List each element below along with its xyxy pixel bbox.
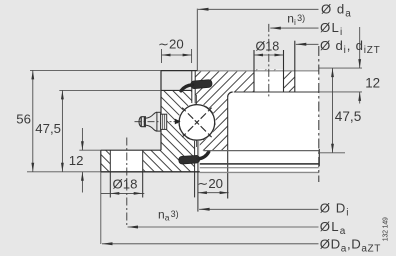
leader n_i / ØL_i [270,27,318,29]
center line bolt hole bottom [126,138,128,228]
seal seat line [204,150,320,152]
dimension Ø18 top [254,54,284,56]
seal groove bottom edge + ext 47,5 [59,89,161,91]
bottom edge ext 56 [27,171,101,173]
ring top edge dark part [161,70,198,72]
joint line above ball right [194,71,196,103]
bottom edge gray right [200,171,319,173]
joint line above ball left [191,71,193,103]
bottom white bands [200,151,319,173]
edge nub right [318,149,320,166]
flange hole right edge + ext [142,150,144,197]
flange hole left edge + ext [109,150,111,197]
gear root edge + d_i ext [294,41,296,92]
grease nipple [139,112,167,131]
dimension 47,5 right [332,68,334,153]
svg-text:47,5: 47,5 [335,109,361,124]
dimension 12 right [359,27,361,68]
bolt hole outer ring (bottom flange) [110,150,142,172]
gear zone left edge + ~20 ext [227,97,229,199]
ext line 12 right bottom [319,91,362,93]
ring top edge gray part [198,70,319,72]
dimension Ø18 bottom [101,192,145,194]
ball contact cross line 2 [182,108,211,137]
top hole right edge + ext [283,50,285,92]
ext line 12 right top [319,67,362,69]
svg-text:132 149: 132 149 [383,217,390,241]
bolt hole inner ring (top) [254,71,284,92]
joint line below ball left + ext [194,141,196,197]
flange left edge [100,150,102,172]
grease nipple axis [135,121,179,123]
dimension 56 [32,70,34,171]
gear tooth zone top band [295,71,319,92]
leader Ø D_a, D_aZT [102,243,319,245]
leader Ø D_i [199,208,318,210]
dimension ~20 top [162,54,192,56]
extension line top 56 [30,69,161,71]
leader Ø d_a [198,8,319,10]
grease passage arrow [175,119,181,125]
raceway bottom thick line [200,163,319,165]
d_a extension line [196,9,198,71]
svg-text:Ø18: Ø18 [256,40,280,54]
ball centerline top [195,95,197,105]
seal bottom [179,152,209,164]
bottom edge dark [101,171,200,173]
svg-text:∼20: ∼20 [197,176,223,191]
joint gap above ball [192,71,195,104]
gear zone corner [228,92,233,97]
center line d_i / d_iZT [318,46,320,182]
joint line below ball right + ext to D_i [197,141,199,212]
top hole left edge + ext [253,50,255,92]
counterbore line under holes [234,91,319,93]
flange top line ext 12 [79,149,101,151]
ball centerline bottom [195,141,197,148]
dimension 12 left [81,128,83,150]
joint gap below ball [195,139,198,172]
ball [179,105,215,141]
inner ring section (right, hatched \) [178,70,295,151]
leader n_a / ØL_a [128,226,319,228]
center line bolt hole top [268,24,270,97]
seal top [181,79,212,90]
flange left edge ext to D_a [100,172,102,244]
svg-text:47,5: 47,5 [35,121,61,136]
svg-text:12: 12 [69,153,84,168]
thin line under thick [200,167,319,169]
outer ring section (left, hatched /) [101,90,216,171]
leader Ø d_i, d_iZT [296,43,319,45]
ball contact cross line 1 [182,108,211,137]
svg-text:Ø18: Ø18 [113,176,138,191]
svg-text:12: 12 [365,75,380,90]
dimension ~20 bottom [198,192,229,194]
dimension 47,5 left [61,90,63,171]
outer ring left edge [160,71,162,151]
svg-text:56: 56 [16,111,31,126]
flange top line [101,149,161,151]
svg-text:∼20: ∼20 [158,36,184,51]
gear zone white region [228,92,319,151]
